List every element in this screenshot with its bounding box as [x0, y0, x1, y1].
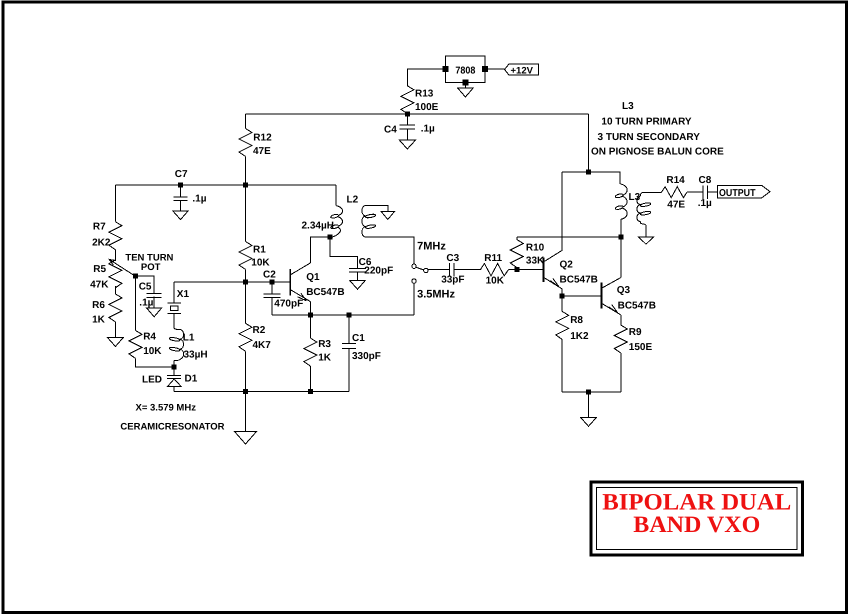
- svg-text:R2: R2: [253, 325, 266, 336]
- transformer L2 primary 2.34uH: [330, 206, 342, 238]
- svg-text:BC547B: BC547B: [618, 301, 656, 312]
- capacitor C1 330pF: [348, 315, 350, 343]
- svg-text:47E: 47E: [667, 199, 685, 210]
- wire R12 to node: [245, 157, 247, 186]
- wire second rail: [115, 184, 335, 186]
- svg-text:2.34µH: 2.34µH: [302, 221, 334, 232]
- svg-text:CERAMICRESONATOR: CERAMICRESONATOR: [120, 422, 224, 433]
- wire R2 to bottom rail: [245, 351, 247, 391]
- node emitter rail ground: [586, 389, 591, 394]
- wire to ground: [588, 392, 590, 417]
- svg-text:47E: 47E: [253, 146, 271, 157]
- wire node to R1: [245, 185, 247, 242]
- svg-text:R12: R12: [253, 133, 272, 144]
- wire rail to R7: [114, 185, 116, 222]
- svg-text:R8: R8: [570, 315, 583, 326]
- svg-text:1K: 1K: [318, 353, 332, 364]
- LED D1: [173, 367, 175, 375]
- resistor R10 33K: [516, 237, 518, 239]
- svg-text:L1: L1: [183, 333, 195, 344]
- wire +8V top rail: [246, 113, 589, 115]
- resistor R12 47E: [239, 129, 252, 157]
- svg-text:R11: R11: [484, 253, 502, 264]
- wire 7808 output to +12V flag: [488, 68, 505, 70]
- wire R13 to +8V rail node: [406, 113, 408, 115]
- svg-text:C5: C5: [139, 281, 152, 292]
- svg-text:BC547B: BC547B: [560, 275, 598, 286]
- svg-text:150E: 150E: [629, 342, 653, 353]
- svg-text:7MHz: 7MHz: [417, 240, 446, 252]
- wire L2 secondary top to ground: [365, 205, 388, 211]
- node pot wiper: [133, 274, 138, 279]
- wire Q2 collector to L3: [561, 172, 563, 250]
- svg-text:470pF: 470pF: [274, 298, 303, 309]
- svg-text:R10: R10: [526, 243, 545, 254]
- node Q2 emitter / Q3 base: [560, 293, 565, 298]
- wire D1 to bottom rail: [173, 386, 175, 391]
- transformer L3 secondary: [637, 196, 640, 222]
- svg-text:X= 3.579 MHz: X= 3.579 MHz: [136, 403, 197, 414]
- +12V power flag: [505, 64, 539, 75]
- resistor R2 4K7: [239, 323, 252, 351]
- wire C8 to output flag: [708, 191, 718, 193]
- capacitor C5 .1u: [147, 293, 162, 295]
- svg-text:R7: R7: [93, 221, 106, 232]
- svg-text:330pF: 330pF: [352, 351, 381, 362]
- svg-text:R13: R13: [415, 89, 434, 100]
- wire emitter ground rail: [562, 391, 621, 393]
- node Q2 base / R10: [514, 267, 519, 272]
- svg-text:R3: R3: [318, 339, 331, 350]
- svg-text:47K: 47K: [90, 280, 109, 291]
- svg-text:3 TURN SECONDARY: 3 TURN SECONDARY: [598, 132, 701, 143]
- svg-text:100E: 100E: [415, 102, 439, 113]
- svg-text:BC547B: BC547B: [306, 287, 344, 298]
- wire R5 to R6: [114, 286, 116, 294]
- node R3 bottom: [308, 389, 313, 394]
- transformer L3 primary: [620, 184, 627, 219]
- wire rail to L2 primary: [335, 185, 337, 206]
- svg-text:.1µ: .1µ: [139, 298, 153, 309]
- svg-text:.1µ: .1µ: [698, 198, 712, 209]
- svg-text:Q2: Q2: [560, 259, 574, 270]
- wire rail to R12: [245, 114, 247, 129]
- wire wiper to C5: [136, 276, 155, 294]
- svg-text:L3: L3: [622, 101, 634, 112]
- resistor R6 1K: [109, 294, 122, 322]
- svg-text:C2: C2: [263, 270, 276, 281]
- node bottom rail ground: [243, 389, 248, 394]
- wire wiper to R4: [135, 276, 137, 330]
- svg-text:L2: L2: [347, 195, 359, 206]
- wire emitter rail: [272, 314, 414, 316]
- svg-text:10K: 10K: [251, 258, 270, 269]
- node +8V rail / C4: [405, 112, 410, 117]
- svg-text:R14: R14: [666, 175, 685, 186]
- svg-text:Q3: Q3: [617, 285, 631, 296]
- node Q1 emitter: [308, 313, 313, 318]
- resistor R3 1K: [309, 315, 311, 338]
- wire L3 secondary to ground: [645, 233, 647, 237]
- capacitor C4 .1u: [406, 114, 408, 125]
- svg-text:R4: R4: [143, 332, 156, 343]
- svg-text:BAND VXO: BAND VXO: [633, 512, 760, 538]
- node C7 tap: [178, 183, 183, 188]
- svg-text:C7: C7: [175, 169, 188, 180]
- wire R7 to R5: [114, 250, 116, 260]
- resistor R14 47E: [662, 187, 687, 198]
- wire base rail: [174, 281, 290, 283]
- svg-text:1K2: 1K2: [570, 331, 589, 342]
- svg-text:L3: L3: [629, 192, 641, 203]
- svg-text:LED: LED: [142, 375, 162, 386]
- node L3 top feed: [586, 170, 591, 175]
- resistor R13 100E: [401, 86, 414, 114]
- wire L3 node to Q3 collector: [620, 237, 622, 277]
- node R12/R1 junction: [243, 183, 248, 188]
- ground under R6: [108, 338, 124, 347]
- OUTPUT flag: [717, 186, 770, 198]
- wire R4 to L1 node: [136, 358, 175, 367]
- svg-text:C8: C8: [699, 175, 712, 186]
- resistor R9 150E: [620, 315, 622, 325]
- svg-text:7808: 7808: [455, 65, 475, 76]
- transistor Q2 BC547B: [542, 258, 544, 282]
- wire 7808 input to R13: [407, 69, 442, 86]
- svg-text:R6: R6: [92, 300, 105, 311]
- wire R1 to base rail: [245, 270, 247, 283]
- transistor Q1 BC547B: [289, 269, 291, 296]
- capacitor C7 .1u: [180, 185, 182, 197]
- wire L1 to node: [173, 361, 175, 367]
- title block BIPOLAR DUAL BAND VXO: [591, 482, 803, 555]
- svg-text:.1µ: .1µ: [192, 194, 206, 205]
- svg-text:C4: C4: [384, 124, 397, 135]
- svg-text:ON PIGNOSE BALUN CORE: ON PIGNOSE BALUN CORE: [591, 146, 724, 157]
- svg-text:10K: 10K: [486, 275, 505, 286]
- ground under R8 R9: [581, 417, 597, 426]
- wire Q1 collector: [310, 237, 330, 263]
- svg-text:R1: R1: [253, 245, 266, 256]
- wire R6 to ground: [114, 322, 116, 338]
- potentiometer R5 47K ten turn: [109, 260, 122, 288]
- svg-text:OUTPUT: OUTPUT: [719, 188, 756, 199]
- resistor R1 10K: [239, 242, 252, 270]
- switch 7MHz contact: [412, 264, 416, 268]
- node R1/R2/base rail: [243, 280, 248, 285]
- capacitor C8 .1u: [702, 186, 704, 199]
- resistor R4 10K: [129, 330, 142, 358]
- transistor Q3 BC547B: [601, 283, 603, 309]
- svg-text:10 TURN PRIMARY: 10 TURN PRIMARY: [601, 117, 692, 128]
- wire Q3 base: [562, 295, 601, 297]
- wire Q1 emitter: [309, 302, 311, 316]
- resistor R11 10K: [480, 264, 508, 276]
- wire to main ground: [245, 392, 247, 432]
- resistor R7 2K2: [109, 222, 122, 250]
- node L3 primary bottom: [618, 235, 623, 240]
- svg-text:.1µ: .1µ: [421, 124, 435, 135]
- switch 3.5MHz contact: [412, 279, 416, 283]
- svg-text:POT: POT: [141, 262, 161, 273]
- resistor R8 1K2: [561, 296, 563, 312]
- ground L2 secondary: [381, 211, 395, 219]
- main ground: [235, 432, 257, 445]
- svg-text:4K7: 4K7: [253, 340, 272, 351]
- wire L3 primary bottom: [620, 219, 622, 237]
- svg-text:220pF: 220pF: [364, 266, 393, 277]
- svg-text:1K: 1K: [92, 315, 106, 326]
- wire C3 to R11: [454, 269, 480, 271]
- svg-text:C1: C1: [352, 333, 365, 344]
- wire R11 to Q2 base: [508, 269, 543, 271]
- ground under C6: [350, 281, 366, 290]
- ground L3 secondary: [638, 237, 653, 244]
- capacitor C2 470pF: [271, 282, 273, 294]
- wire L2 tap to C6: [330, 237, 358, 269]
- wire L2 secondary to switch: [365, 237, 414, 264]
- wire base rail to R2: [245, 282, 247, 323]
- svg-text:3.5MHz: 3.5MHz: [417, 288, 455, 300]
- svg-text:+12V: +12V: [511, 65, 534, 76]
- node L2 tap: [327, 235, 332, 240]
- capacitor C6 220pF: [349, 268, 366, 270]
- svg-text:D1: D1: [185, 374, 198, 385]
- wire Q2 emitter: [561, 289, 563, 296]
- svg-text:33µH: 33µH: [184, 350, 208, 361]
- node C1 tap: [346, 313, 351, 318]
- voltage regulator U1 7808: [446, 56, 486, 82]
- ground under 7808: [464, 85, 466, 88]
- wire bottom rail: [174, 391, 349, 393]
- switch lever: [416, 267, 424, 270]
- svg-text:C3: C3: [446, 253, 459, 264]
- wire X1 to L1: [173, 313, 175, 328]
- ceramic resonator X1: [167, 302, 181, 304]
- svg-text:R5: R5: [93, 264, 106, 275]
- node C2 tap: [269, 280, 274, 285]
- wire L3 primary top: [562, 172, 620, 184]
- wire 3.5MHz contact down: [413, 283, 415, 315]
- wire R10 rail: [517, 236, 621, 238]
- svg-text:X1: X1: [177, 289, 190, 300]
- capacitor C3 33pF: [448, 263, 450, 276]
- svg-text:33K: 33K: [526, 256, 545, 267]
- svg-text:33pF: 33pF: [441, 274, 464, 285]
- wire L3 secondary to R14: [645, 191, 662, 193]
- switch common: [424, 268, 428, 272]
- ground under C5: [147, 308, 162, 317]
- wire rail corner to X1: [173, 282, 175, 303]
- svg-text:Q1: Q1: [306, 272, 320, 283]
- svg-text:2K2: 2K2: [92, 237, 111, 248]
- ground under C4: [399, 140, 415, 149]
- wire switch common to C3: [428, 269, 449, 271]
- svg-text:R9: R9: [629, 327, 642, 338]
- svg-text:10K: 10K: [143, 346, 162, 357]
- wire top rail down to L3: [588, 114, 590, 172]
- wire R14 to C8: [687, 191, 703, 193]
- inductor L1 33uH: [174, 328, 180, 329]
- transformer L2 secondary: [362, 205, 365, 237]
- node L1/R4/D1: [172, 365, 177, 370]
- ground under C7: [173, 211, 189, 220]
